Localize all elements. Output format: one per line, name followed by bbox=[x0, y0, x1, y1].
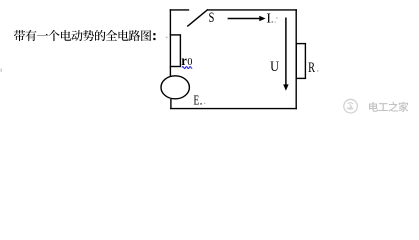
right vertical wire bbox=[295, 9, 297, 109]
svg-text:I: I bbox=[266, 11, 271, 26]
cell E (EMF source) bbox=[161, 76, 189, 99]
caption text 带有一个电动势的全电路图 bbox=[14, 30, 151, 41]
svg-text:E: E bbox=[194, 93, 200, 108]
switch S blade bbox=[187, 9, 208, 26]
current arrow I bbox=[228, 16, 266, 22]
stray dots after I bbox=[272, 17, 278, 23]
wire switch to top-right corner bbox=[207, 9, 297, 11]
resistor r0 bbox=[170, 35, 180, 67]
stray dot after colon bbox=[166, 37, 168, 39]
voltage arrow U bbox=[283, 18, 288, 91]
dot after E bbox=[200, 103, 205, 105]
wire below cell bbox=[170, 99, 172, 109]
wire r0 to cell bbox=[169, 67, 171, 78]
watermark text 电工之家 bbox=[369, 102, 408, 112]
watermark logo circle bbox=[344, 99, 358, 113]
svg-text:U: U bbox=[270, 59, 279, 75]
spellcheck squiggle under r0 bbox=[182, 67, 192, 69]
resistor R bbox=[296, 44, 305, 79]
dot after R bbox=[317, 70, 318, 71]
caption colon bbox=[153, 33, 155, 40]
wire left vertical (corner down to r0) bbox=[169, 9, 171, 35]
wire top-left segment (corner to switch) bbox=[170, 9, 190, 11]
svg-text:R: R bbox=[308, 60, 315, 76]
label r0 bbox=[181, 54, 192, 69]
bottom wire bbox=[170, 108, 297, 110]
svg-text:S: S bbox=[209, 10, 215, 26]
